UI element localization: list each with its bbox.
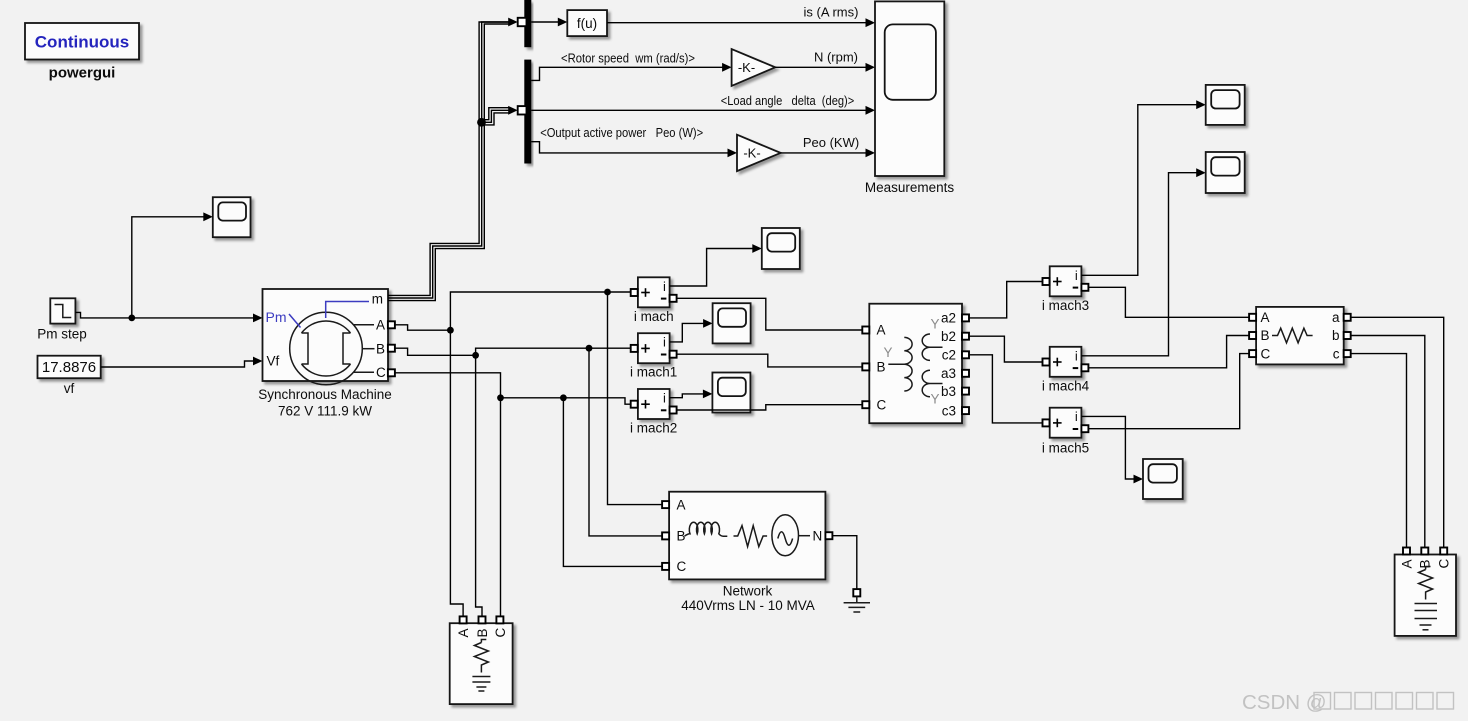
network port squares A B C <box>662 501 669 508</box>
scope block Measurements <box>875 1 944 176</box>
svg-text:b: b <box>1332 328 1340 343</box>
svg-text:C: C <box>1437 559 1452 569</box>
svg-text:Pm step: Pm step <box>37 327 87 342</box>
current measurement block i mach2 <box>631 389 677 419</box>
transformer block (three-phase) <box>862 304 969 424</box>
network port square N <box>825 532 832 539</box>
bus branch (triple) to bus selector 2 <box>479 108 510 125</box>
wire i mach2 minus to transformer C <box>677 405 863 410</box>
wire phase A down to load1 A <box>450 330 463 616</box>
branch resistor zigzag <box>1272 328 1313 343</box>
wire i mach i-out to Scope2 <box>670 249 754 287</box>
scope Scope4 (right of i mach2) <box>712 373 750 413</box>
arrowhead into machine Vf <box>253 357 263 366</box>
scope ScopeB (second top right) <box>1206 152 1245 193</box>
bus wire (triple) from machine m to bus selectors <box>388 22 510 301</box>
ground symbol <box>844 596 870 612</box>
svg-text:i mach5: i mach5 <box>1042 441 1089 456</box>
current measurement block i mach <box>631 277 677 307</box>
svg-text:i mach: i mach <box>634 309 674 324</box>
branch port squares left <box>1249 314 1256 321</box>
network lead to N <box>799 535 811 537</box>
junction dot C1 <box>497 394 504 401</box>
svg-text:f(u): f(u) <box>577 16 597 31</box>
transformer primary winding <box>888 337 912 391</box>
machine label B + lead <box>362 348 374 350</box>
wire phase C down to load1 C <box>500 398 502 617</box>
svg-text:m: m <box>372 292 383 307</box>
machine blue m-line <box>326 302 369 319</box>
arrowhead into Scope4 <box>703 390 713 399</box>
arrowhead into Scope3 <box>703 319 713 328</box>
wire phase A down to network A <box>608 292 663 505</box>
junction dot B1 <box>472 352 479 359</box>
junction dot B2 <box>586 345 593 352</box>
svg-text:-K-: -K- <box>743 146 760 161</box>
svg-text:-K-: -K- <box>738 60 755 75</box>
bus selector 2 bar <box>524 60 531 164</box>
machine icon bottom arc <box>302 364 351 376</box>
arrowhead into ScopeB <box>1196 168 1206 177</box>
svg-text:<Load angle delta (deg)>: <Load angle delta (deg)> <box>721 93 855 108</box>
wire gain2 to Measurements <box>781 152 867 154</box>
wire i mach1 minus to transformer B <box>677 354 863 367</box>
svg-text:A: A <box>456 628 471 637</box>
transformer port squares right <box>962 314 969 321</box>
machine label C + lead <box>354 371 375 373</box>
svg-text:B: B <box>475 628 490 637</box>
arrowhead into ScopeC <box>1134 475 1144 484</box>
current measurement block i mach4 <box>1043 347 1089 377</box>
svg-text:i: i <box>1075 268 1078 283</box>
arrowhead into gain2 <box>728 149 738 158</box>
scope ScopeC (below i mach5) <box>1143 459 1183 499</box>
wire a2 to i mach3 <box>969 282 1043 318</box>
svg-text:762 V 111.9 kW: 762 V 111.9 kW <box>278 404 372 419</box>
bus selector 1 input port marker <box>518 18 527 26</box>
wire phase A up to i mach row <box>450 292 630 330</box>
machine blue Pm-line <box>289 314 301 328</box>
svg-text:C: C <box>877 397 887 412</box>
svg-text:N: N <box>813 528 823 543</box>
svg-text:i mach3: i mach3 <box>1042 298 1089 313</box>
svg-text:A: A <box>877 323 886 338</box>
wire load angle: bus2 to Measurements <box>531 109 866 111</box>
scope Scope2 (above i mach) <box>762 228 800 269</box>
transformer port squares left <box>862 327 869 334</box>
wire branch c to load2 A <box>1351 354 1407 548</box>
machine port A square <box>388 321 395 328</box>
arrowhead into machine Pm <box>253 314 263 323</box>
network AC source sine <box>778 532 793 546</box>
svg-text:b3: b3 <box>941 384 956 399</box>
machine icon right bracket <box>343 333 351 364</box>
svg-text:powergui: powergui <box>49 65 116 82</box>
arrowheads into Measurements <box>866 18 876 27</box>
current measurement block i mach1 <box>631 333 677 363</box>
load2 port squares <box>1403 548 1410 555</box>
svg-text:Y: Y <box>930 391 939 406</box>
wire bus1 to f(u) <box>531 21 559 23</box>
three-phase load block (bottom left) <box>450 616 513 704</box>
svg-text:C: C <box>493 628 508 638</box>
wire phase B from machine <box>395 348 476 355</box>
svg-text:i mach4: i mach4 <box>1042 379 1090 394</box>
svg-text:Pm: Pm <box>266 309 287 325</box>
branch port squares right <box>1344 314 1351 321</box>
junction dot Pm <box>128 315 135 322</box>
machine port B square <box>388 345 395 352</box>
machine port C square <box>388 369 395 376</box>
scope Scope1 (top-left) <box>213 197 251 237</box>
svg-text:a: a <box>1332 310 1340 325</box>
wire i mach minus to transformer A <box>677 298 863 330</box>
arrowhead into f(u) <box>558 18 568 27</box>
fcn block f(u) <box>567 10 607 36</box>
wire i mach4 i-out to ScopeB <box>1081 173 1197 356</box>
svg-text:B: B <box>376 341 385 356</box>
arrowhead into Scope2 <box>752 244 762 253</box>
wire branch a to load2 C <box>1351 317 1444 547</box>
svg-text:c3: c3 <box>942 403 956 418</box>
wire phase B up to i mach1 <box>476 348 631 355</box>
svg-text:A: A <box>376 318 385 333</box>
svg-text:N (rpm): N (rpm) <box>814 50 858 65</box>
svg-text:17.8876: 17.8876 <box>42 359 96 376</box>
watermark CJK glyph boxes <box>1314 693 1454 710</box>
bus selector 1 bar <box>524 0 531 47</box>
wire phase A from machine <box>395 325 451 330</box>
svg-text:i: i <box>663 391 666 406</box>
arrowhead into ScopeA <box>1196 100 1206 109</box>
wire output power: bus2 to gain2 <box>531 142 729 153</box>
svg-text:C: C <box>376 365 386 380</box>
synchronous machine block SM <box>263 289 389 385</box>
wire i mach5 minus to 3ph branch C <box>1088 354 1249 429</box>
svg-text:a3: a3 <box>941 366 956 381</box>
wire i mach4 minus to 3ph branch B <box>1088 336 1249 368</box>
machine icon outer circle <box>290 312 363 385</box>
gain block -K- (kW) <box>737 135 781 171</box>
svg-text:B: B <box>677 529 686 544</box>
wire i mach1 i-out to Scope3 <box>670 323 705 342</box>
scope ScopeA (top right) <box>1206 85 1245 125</box>
ground port square <box>853 589 860 596</box>
svg-text:B: B <box>877 360 886 375</box>
svg-text:A: A <box>1399 559 1414 568</box>
wire rotor speed: bus2 to gain1 <box>531 67 723 80</box>
svg-text:A: A <box>677 497 686 512</box>
svg-text:c: c <box>1333 346 1340 361</box>
step source block "Pm step" <box>50 298 75 323</box>
network resistor zigzag <box>734 526 768 547</box>
svg-text:i mach2: i mach2 <box>630 420 677 435</box>
svg-text:Network: Network <box>723 584 773 599</box>
wire b2 to i mach4 <box>969 336 1043 362</box>
wire phase C from machine <box>395 373 631 404</box>
svg-text:A: A <box>1261 310 1270 325</box>
wire branch b to load2 B <box>1351 336 1425 548</box>
svg-text:<Rotor speed wm (rad/s)>: <Rotor speed wm (rad/s)> <box>561 51 695 66</box>
svg-text:Peo (KW): Peo (KW) <box>803 135 859 150</box>
load1 port squares <box>460 616 467 623</box>
three-phase series branch block (right) <box>1249 307 1351 365</box>
svg-text:c2: c2 <box>942 348 956 363</box>
svg-text:is (A rms): is (A rms) <box>804 5 859 20</box>
scope Scope3 (right of i mach1) <box>713 303 751 343</box>
wire i mach2 i-out to Scope4 <box>670 394 705 398</box>
svg-text:i mach1: i mach1 <box>630 365 677 380</box>
network source block <box>662 492 832 580</box>
wire: Pm junction to Scope1 <box>132 217 205 318</box>
svg-text:Y: Y <box>930 317 939 332</box>
network AC source circle <box>772 515 799 556</box>
wire phase B down to network B <box>589 348 662 536</box>
powergui block U1 <box>25 23 139 60</box>
junction dot A1 <box>447 327 454 334</box>
junction dot A2 <box>604 289 611 296</box>
svg-text:Vf: Vf <box>267 354 280 369</box>
arrowhead into bus selector 2 <box>508 106 518 115</box>
wire: vf to machine Vf input <box>101 361 254 367</box>
arrowhead into bus selector 1 <box>508 18 518 27</box>
svg-text:b2: b2 <box>941 329 956 344</box>
transformer secondary winding upper <box>922 334 942 360</box>
bus selector 2 input port marker <box>518 106 527 114</box>
wire c2 to i mach5 <box>969 355 1043 423</box>
machine icon left bracket <box>302 333 309 364</box>
machine icon top arc <box>302 321 351 333</box>
wire i mach5 i-out to ScopeC <box>1081 416 1134 479</box>
arrowhead into Scope1 <box>203 212 213 221</box>
svg-text:a2: a2 <box>941 311 956 326</box>
three-phase load block (bottom right) <box>1395 548 1456 636</box>
arrowhead into gain1 <box>722 63 732 72</box>
svg-text:<Output active power Peo (W): <Output active power Peo (W)> <box>540 125 703 140</box>
wire i mach3 i-out to ScopeA <box>1081 105 1197 276</box>
wire: Pm step to machine Pm input <box>75 312 253 318</box>
wire phase C down to network C <box>563 398 662 567</box>
svg-text:C: C <box>1261 346 1271 361</box>
svg-text:Continuous: Continuous <box>35 33 129 52</box>
bus junction dot <box>477 118 486 127</box>
network inductor coil <box>685 522 728 536</box>
constant block vf value 17.8876 <box>38 356 101 379</box>
current measurement block i mach5 <box>1043 408 1089 438</box>
junction dot C2 <box>560 394 567 401</box>
svg-text:C: C <box>677 559 687 574</box>
svg-text:i: i <box>663 279 666 294</box>
svg-text:vf: vf <box>64 381 75 396</box>
wire phase B down to load1 B <box>476 355 482 616</box>
load2 series RC icon <box>1419 567 1433 600</box>
gain block -K- (rpm) <box>732 49 776 86</box>
svg-text:Synchronous Machine: Synchronous Machine <box>258 387 392 402</box>
svg-text:i: i <box>663 335 666 350</box>
machine label A + lead <box>354 324 375 326</box>
svg-text:B: B <box>1261 328 1270 343</box>
svg-text:Y: Y <box>883 345 892 360</box>
transformer secondary winding lower <box>922 370 942 396</box>
wire f(u) to Measurements <box>607 22 866 24</box>
svg-text:i: i <box>1075 348 1078 363</box>
wire gain1 to Measurements <box>775 66 866 68</box>
wire i mach3 minus to 3ph branch A <box>1088 287 1249 317</box>
svg-text:i: i <box>1075 409 1078 424</box>
wire network N to ground <box>832 536 856 589</box>
svg-text:440Vrms LN - 10 MVA: 440Vrms LN - 10 MVA <box>681 598 815 613</box>
svg-text:Measurements: Measurements <box>865 180 955 195</box>
current measurement block i mach3 <box>1043 266 1089 296</box>
load1 series RC icon <box>474 640 488 673</box>
